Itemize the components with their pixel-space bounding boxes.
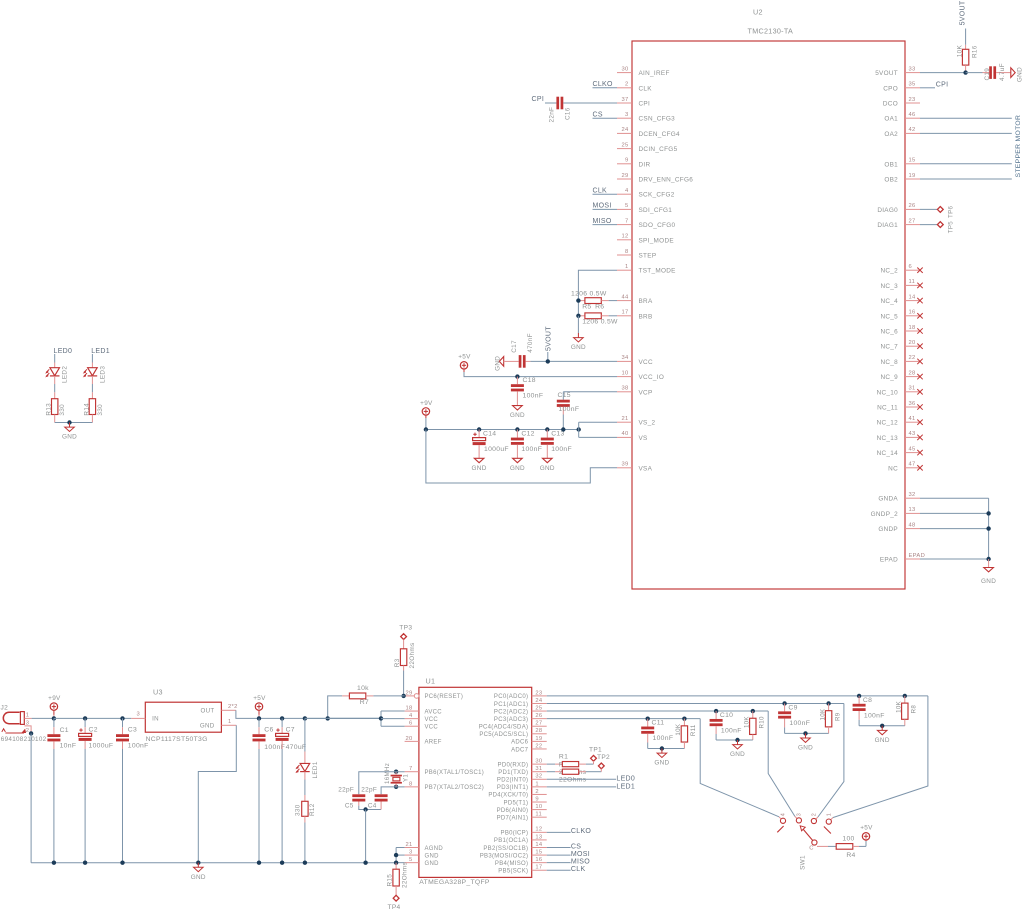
svg-text:15: 15: [909, 158, 916, 164]
U2 pin 10 VCC_IO: [617, 376, 632, 378]
svg-text:ATMEGA328P_TQFP: ATMEGA328P_TQFP: [419, 879, 490, 886]
svg-text:PC4(ADC4/SDA): PC4(ADC4/SDA): [479, 725, 529, 731]
wire SW1 common to R4: [817, 845, 828, 847]
junction: [714, 709, 718, 713]
U1 pin 31 PD1(TXD): [532, 771, 547, 773]
U1 pin 28 PC5(ADC5/SCL): [532, 733, 547, 735]
net label CLK on U1: [547, 869, 571, 871]
svg-text:PD1(TXD): PD1(TXD): [498, 770, 528, 776]
svg-text:CLKO: CLKO: [571, 828, 592, 835]
junction: [303, 861, 307, 865]
svg-text:R16: R16: [972, 45, 979, 58]
svg-text:GND: GND: [730, 751, 745, 758]
svg-text:CSN_CFG3: CSN_CFG3: [639, 116, 676, 123]
svg-text:47: 47: [909, 462, 916, 468]
svg-text:R14: R14: [83, 403, 90, 416]
no-connect X on U2 pin 22: [917, 359, 922, 364]
wire VSA return loop: [426, 430, 617, 484]
resistor R2 22Ohms on PD1: [547, 771, 555, 773]
svg-text:27: 27: [535, 721, 542, 727]
U2 pin 35 CPO: [905, 87, 920, 89]
svg-text:2*2: 2*2: [228, 704, 238, 710]
svg-text:40: 40: [621, 431, 628, 437]
svg-text:C10: C10: [720, 712, 733, 719]
svg-text:2: 2: [26, 728, 30, 734]
svg-text:25: 25: [535, 705, 542, 711]
svg-text:PC3(ADC3): PC3(ADC3): [494, 717, 528, 723]
svg-text:PC1(ADC1): PC1(ADC1): [494, 702, 528, 708]
svg-text:2: 2: [625, 82, 629, 88]
svg-text:PD5(T1): PD5(T1): [504, 800, 529, 806]
wire R3 to reset pin: [403, 671, 405, 696]
svg-text:NC_14: NC_14: [877, 450, 899, 457]
svg-text:DIAG0: DIAG0: [877, 207, 898, 214]
svg-text:GND: GND: [191, 874, 206, 881]
capacitor C5 22pF: [352, 794, 365, 797]
svg-text:PC5(ADC5/SCL): PC5(ADC5/SCL): [479, 732, 528, 738]
svg-text:EPAD: EPAD: [880, 557, 898, 564]
svg-text:27: 27: [909, 218, 916, 224]
svg-text:20: 20: [405, 736, 412, 742]
U2 pin 48 GNDP: [905, 528, 920, 530]
svg-text:GNDP: GNDP: [878, 526, 898, 533]
svg-text:C: C: [809, 845, 814, 851]
U1 pin 13 PB1(OC1A): [532, 839, 547, 841]
svg-text:C6: C6: [264, 727, 273, 734]
svg-text:MISO: MISO: [593, 218, 612, 225]
U1 pin 26 PC3(ADC3): [532, 718, 547, 720]
wire PC net to C11/R11: [547, 718, 701, 720]
svg-text:NC_13: NC_13: [877, 435, 899, 442]
svg-text:GND: GND: [472, 465, 487, 472]
U3 pin 2 OUT: [221, 709, 236, 711]
U2 pin 46 OA1: [905, 117, 920, 119]
junction: [477, 427, 481, 431]
svg-text:LED1: LED1: [312, 761, 319, 778]
svg-text:PB7(XTAL2/TOSC2): PB7(XTAL2/TOSC2): [425, 785, 485, 791]
wire OA2: [920, 132, 1012, 134]
junction: [120, 861, 124, 865]
svg-text:MISO: MISO: [571, 859, 590, 866]
svg-text:NC: NC: [888, 465, 898, 472]
junction: [903, 694, 907, 698]
U2 pin 44 BRA: [617, 300, 632, 302]
no-connect X on U2 pin 20: [917, 344, 922, 349]
svg-text:VCC: VCC: [425, 725, 439, 731]
no-connect X on U2 pin 41: [917, 420, 922, 425]
svg-text:8: 8: [625, 249, 629, 255]
svg-text:41: 41: [909, 416, 916, 422]
svg-text:5: 5: [409, 857, 413, 863]
svg-text:16MHz: 16MHz: [384, 763, 391, 784]
svg-text:TP1: TP1: [589, 747, 602, 754]
svg-text:12: 12: [535, 827, 542, 833]
U1 pin 14 PB2(SS/OC1B): [532, 847, 547, 849]
ground symbol right of C19: [1011, 68, 1015, 78]
wire OB1: [920, 163, 1012, 165]
svg-text:5VOUT: 5VOUT: [875, 70, 898, 77]
U2 pin 6 NC_2: [905, 269, 920, 271]
svg-text:32: 32: [535, 774, 542, 780]
svg-text:R13: R13: [46, 403, 53, 416]
svg-text:LED2: LED2: [62, 366, 69, 383]
junction: [576, 298, 580, 302]
svg-text:NC_12: NC_12: [877, 420, 899, 427]
U2 pin 5 SDI_CFG1: [617, 208, 632, 210]
U2 pin 38 VCP: [617, 391, 632, 393]
ground symbol below R5/R6: [577, 333, 579, 338]
wire U3 OUT to +5V rail: [236, 710, 381, 718]
svg-text:10K: 10K: [957, 44, 964, 57]
resistor R6 1206 0.5W (BRB): [577, 301, 579, 316]
junction: [401, 694, 405, 698]
no-connect X on U2 pin 36: [917, 404, 922, 409]
wire R7 to +5V rail: [328, 696, 342, 719]
U2 pin 45 NC_14: [905, 452, 920, 454]
svg-text:GNDA: GNDA: [878, 496, 898, 503]
svg-text:LED1: LED1: [91, 348, 110, 355]
svg-text:1000uF: 1000uF: [89, 742, 114, 749]
svg-text:330: 330: [97, 404, 104, 416]
svg-text:31: 31: [535, 766, 542, 772]
svg-text:AIN_IREF: AIN_IREF: [639, 70, 670, 77]
power symbol +9V at input: [50, 703, 57, 710]
svg-text:R5: R5: [582, 304, 591, 311]
SW1 end-stop marks: [777, 826, 783, 832]
svg-text:R6: R6: [595, 304, 604, 311]
svg-text:SW1: SW1: [799, 855, 806, 870]
svg-text:CPI: CPI: [639, 101, 651, 108]
svg-text:24: 24: [535, 698, 543, 704]
svg-text:OUT: OUT: [201, 708, 215, 715]
svg-text:30: 30: [621, 66, 628, 72]
junction: [280, 861, 284, 865]
svg-text:CS: CS: [571, 843, 581, 850]
svg-text:17: 17: [621, 310, 628, 316]
U2 pin 32 GNDA: [905, 497, 920, 499]
svg-text:PD6(AIN0): PD6(AIN0): [497, 808, 529, 814]
U2 pin 16 NC_5: [905, 315, 920, 317]
wire J2 tip to +9V rail: [32, 717, 54, 719]
svg-text:CPI: CPI: [532, 96, 545, 103]
svg-text:3: 3: [137, 712, 141, 718]
U1 pin 15 PB3(MOSI/OC2): [532, 854, 547, 856]
svg-text:TP4: TP4: [388, 904, 401, 911]
wire PC net to C8/R8: [547, 695, 928, 697]
svg-text:VCC: VCC: [425, 717, 439, 723]
U2 pin 2 CLK: [617, 87, 632, 89]
wire PC net to C10/R10: [547, 710, 769, 712]
capacitor C1 10nF: [53, 718, 55, 727]
U2 pin EPAD EPAD: [905, 558, 920, 560]
net label CLKO on U1: [547, 831, 571, 833]
svg-text:4: 4: [409, 713, 413, 719]
net label CS on U1: [547, 847, 571, 849]
svg-text:C19: C19: [984, 68, 991, 81]
svg-text:BRB: BRB: [639, 313, 653, 320]
U2 pin 25 DCIN_CFG5: [617, 148, 632, 150]
svg-text:STEP: STEP: [639, 253, 657, 260]
svg-text:100nF: 100nF: [721, 728, 742, 735]
svg-text:22Ohms: 22Ohms: [409, 643, 416, 669]
U2 pin 31 NC_10: [905, 391, 920, 393]
svg-text:100nF: 100nF: [128, 742, 149, 749]
svg-text:NC_7: NC_7: [880, 344, 898, 351]
U3 pin 1 GND: [221, 724, 236, 726]
svg-text:+5V: +5V: [458, 354, 471, 361]
resistor R14 330: [91, 392, 93, 398]
svg-text:CPI: CPI: [936, 82, 949, 89]
no-connect X on U2 pin 6: [917, 268, 922, 273]
svg-text:42: 42: [909, 127, 916, 133]
ground symbol under C10: [737, 740, 739, 745]
U1 pin 1 PD3(INT1): [532, 786, 547, 788]
ground symbol under C8: [881, 726, 883, 731]
svg-text:DCEN_CFG4: DCEN_CFG4: [639, 131, 681, 138]
U2 pin 47 NC: [905, 467, 920, 469]
svg-text:10K: 10K: [675, 723, 682, 735]
wire R8 to switch contact: [833, 696, 928, 818]
U2 pin 24 DCEN_CFG4: [617, 132, 632, 134]
svg-text:GND: GND: [540, 465, 555, 472]
wire C10/R10 bottom to GND: [716, 739, 753, 741]
U1 pin 10 PD6(AIN0): [532, 809, 547, 811]
U1 pin 27 PC4(ADC4/SDA): [532, 725, 547, 727]
U1 supply bracket AVCC/VCC/VCC: [380, 711, 382, 726]
U2 pin 41 NC_12: [905, 421, 920, 423]
svg-text:NC_10: NC_10: [877, 389, 899, 396]
no-connect X on U2 pin 31: [917, 389, 922, 394]
rotary switch SW1: [780, 818, 785, 823]
svg-text:CLK: CLK: [639, 85, 653, 92]
svg-text:ADC7: ADC7: [511, 747, 529, 753]
svg-text:GND: GND: [62, 434, 77, 441]
svg-text:GND: GND: [510, 465, 525, 472]
svg-text:43: 43: [909, 431, 916, 437]
resistor R1 22Ohms on PD0: [547, 763, 555, 765]
svg-text:26: 26: [535, 713, 542, 719]
svg-text:100nF: 100nF: [789, 720, 810, 727]
svg-text:C17: C17: [511, 340, 518, 353]
wire +9V rail to U3 IN: [54, 717, 131, 719]
svg-text:PC0(ADC0): PC0(ADC0): [494, 694, 528, 700]
U2 pin 8 STEP: [617, 254, 632, 256]
svg-text:22nF: 22nF: [549, 107, 556, 123]
svg-text:MOSI: MOSI: [593, 203, 612, 210]
svg-text:6: 6: [909, 264, 913, 270]
wire OA1 to stepper motor header: [920, 117, 1012, 119]
wire U3 GND to bottom rail: [198, 725, 236, 862]
svg-text:IN: IN: [152, 715, 159, 722]
net label MISO on U1: [547, 862, 571, 864]
svg-text:33: 33: [909, 66, 916, 72]
svg-text:14: 14: [909, 294, 917, 300]
U2 pin 13 GNDP_2: [905, 512, 920, 514]
svg-text:24: 24: [621, 127, 629, 133]
svg-text:TP6: TP6: [947, 205, 954, 218]
svg-text:100nF: 100nF: [559, 406, 580, 413]
U1 pin 3 GND: [405, 854, 419, 856]
svg-text:TST_MODE: TST_MODE: [639, 268, 676, 275]
IC U2 TMC2130-TA stepper driver body: [632, 41, 905, 589]
svg-text:PD3(INT1): PD3(INT1): [497, 785, 528, 791]
junction: [986, 557, 990, 561]
U1 pin 9 PD5(T1): [532, 801, 547, 803]
U1 pin 16 PB4(MISO): [532, 862, 547, 864]
svg-text:13: 13: [909, 507, 916, 513]
junction: [646, 716, 650, 720]
resistor R4 100: [836, 844, 853, 850]
svg-text:C1: C1: [60, 727, 69, 734]
svg-text:PB2(SS/OC1B): PB2(SS/OC1B): [483, 846, 528, 852]
svg-text:OA2: OA2: [884, 131, 898, 138]
U1 pin 2 PD4(XCK/T0): [532, 793, 547, 795]
svg-text:GND: GND: [425, 861, 440, 867]
U2 pin 34 VCC: [617, 360, 632, 362]
test point TP4: [393, 895, 399, 901]
junction: [424, 427, 428, 431]
U2 pin 27 DIAG1: [905, 224, 920, 226]
capacitor C15 100nF at VCP: [563, 391, 617, 393]
U2 pin 14 NC_4: [905, 300, 920, 302]
svg-text:PC6(RESET): PC6(RESET): [425, 694, 464, 700]
U2 pin 19 OB2: [905, 178, 920, 180]
svg-text:19: 19: [909, 173, 916, 179]
U1 pin 6 VCC: [405, 725, 419, 727]
svg-text:EPAD: EPAD: [909, 553, 926, 559]
svg-text:SPI_MODE: SPI_MODE: [639, 237, 674, 244]
ground symbol for LED indicators: [69, 423, 71, 428]
U2 pin 36 NC_11: [905, 406, 920, 408]
svg-text:NC_2: NC_2: [880, 268, 898, 275]
svg-text:100nF: 100nF: [523, 393, 544, 400]
svg-text:SCK_CFG2: SCK_CFG2: [639, 192, 675, 199]
U1 pin 22 ADC7: [532, 748, 547, 750]
no-connect X on U2 pin 14: [917, 298, 922, 303]
svg-text:1000uF: 1000uF: [484, 446, 509, 453]
microcontroller U1 ATMEGA328P_TQFP body: [419, 687, 532, 877]
svg-text:13: 13: [535, 834, 542, 840]
junction: [394, 785, 398, 789]
svg-text:DIAG1: DIAG1: [877, 222, 898, 229]
junction: [83, 861, 87, 865]
junction: [545, 427, 549, 431]
svg-text:AVCC: AVCC: [425, 709, 443, 715]
svg-text:C7: C7: [286, 727, 295, 734]
wire R10 to switch contact: [768, 711, 795, 816]
U1 pin 18 AVCC: [405, 710, 419, 712]
svg-text:OB2: OB2: [884, 177, 898, 184]
net label MISO at U2 SDO_CFG0: [593, 224, 618, 226]
resistor R15 22Ohms: [395, 863, 397, 870]
no-connect X on U2 pin 45: [917, 450, 922, 455]
net label CS at U2 CSN_CFG3: [593, 117, 618, 119]
svg-text:23: 23: [909, 97, 916, 103]
svg-text:38: 38: [621, 386, 628, 392]
svg-text:LED0: LED0: [616, 776, 635, 783]
svg-text:GND: GND: [654, 760, 669, 767]
svg-text:Y1: Y1: [403, 774, 410, 782]
wire GNDA/GNDP_2/GNDP/EPAD to GND bus: [920, 497, 989, 499]
svg-text:10K: 10K: [744, 716, 751, 728]
ground symbol under C9: [805, 733, 807, 738]
svg-text:J2: J2: [1, 705, 9, 712]
junction: [857, 694, 861, 698]
U2 pin 40 VS: [617, 436, 632, 438]
wire TST_MODE to BRA/BRB junction: [578, 270, 617, 300]
junction: [782, 701, 786, 705]
U1 pin 24 PC1(ADC1): [532, 702, 547, 704]
svg-text:2: 2: [535, 789, 539, 795]
test point TP6 on DIAG0: [920, 208, 938, 210]
svg-text:C12: C12: [521, 431, 534, 438]
svg-text:GND: GND: [875, 737, 890, 744]
svg-text:CS: CS: [593, 111, 603, 118]
U2 pin 15 OB1: [905, 163, 920, 165]
svg-text:2: 2: [811, 813, 817, 816]
junction: [394, 770, 398, 774]
svg-text:22: 22: [909, 355, 916, 361]
svg-text:31: 31: [909, 386, 916, 392]
U2 pin 17 BRB: [617, 315, 632, 317]
svg-text:C3: C3: [128, 727, 137, 734]
svg-text:29: 29: [621, 173, 628, 179]
svg-text:GND: GND: [1016, 67, 1023, 82]
svg-text:CLK: CLK: [593, 187, 608, 194]
U1 pin 5 GND: [405, 862, 419, 864]
junction: [803, 731, 807, 735]
svg-text:100nF: 100nF: [521, 446, 542, 453]
junction: [257, 861, 261, 865]
svg-text:29: 29: [405, 690, 412, 696]
svg-text:28: 28: [909, 370, 916, 376]
power symbol +9V at VS rail: [422, 408, 429, 415]
svg-text:330: 330: [59, 404, 66, 416]
svg-text:TP2: TP2: [597, 754, 610, 761]
svg-text:CLKO: CLKO: [593, 81, 614, 88]
U2 pin 33 5VOUT: [905, 72, 920, 74]
svg-text:22pF: 22pF: [361, 787, 377, 794]
svg-text:GND: GND: [981, 578, 996, 585]
resistor R5 1206 0.5W (BRA): [578, 300, 585, 302]
wire PB7 to C4: [381, 787, 405, 794]
svg-text:37: 37: [621, 97, 628, 103]
junction: [963, 70, 967, 74]
svg-text:1206 0.5W: 1206 0.5W: [582, 319, 618, 326]
svg-text:22Ohms: 22Ohms: [402, 862, 409, 888]
svg-text:PB5(SCK): PB5(SCK): [498, 869, 528, 875]
U2 pin 3 CSN_CFG3: [617, 117, 632, 119]
no-connect X on U2 pin 28: [917, 374, 922, 379]
U2 pin 20 NC_7: [905, 345, 920, 347]
U1 pin 11 PD7(AIN1): [532, 816, 547, 818]
svg-text:PD4(XCK/T0): PD4(XCK/T0): [488, 793, 528, 799]
wire R9 to switch contact: [818, 703, 844, 817]
svg-text:DCO: DCO: [883, 101, 898, 108]
svg-text:CLK: CLK: [571, 866, 586, 873]
svg-text:+9V: +9V: [420, 400, 433, 407]
no-connect X on U2 pin 11: [917, 283, 922, 288]
svg-text:18: 18: [909, 325, 916, 331]
junction: [546, 359, 550, 363]
svg-text:C18: C18: [523, 377, 536, 384]
svg-text:PD2(INT0): PD2(INT0): [497, 778, 528, 784]
svg-text:STEPPER MOTOR: STEPPER MOTOR: [1015, 115, 1022, 178]
svg-text:100nF: 100nF: [653, 735, 674, 742]
net label LED0 on PD2: [547, 778, 616, 780]
svg-text:PB1(OC1A): PB1(OC1A): [494, 838, 528, 844]
svg-text:DRV_ENN_CFG6: DRV_ENN_CFG6: [639, 177, 694, 184]
